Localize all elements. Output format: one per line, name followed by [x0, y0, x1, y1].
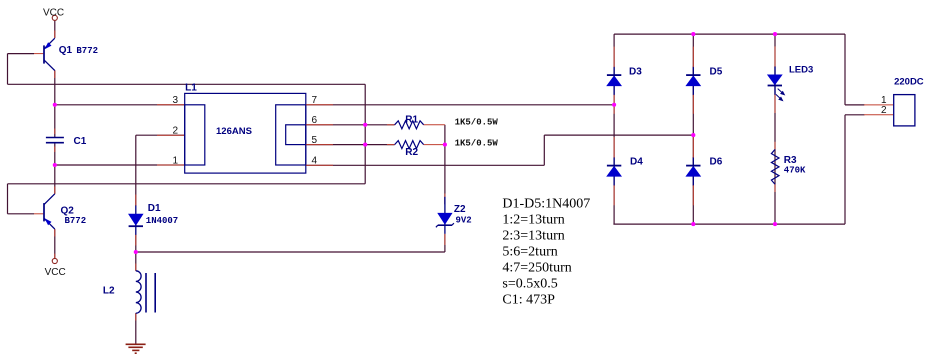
svg-text:B772: B772 — [76, 46, 98, 56]
svg-text:C1: 473P: C1: 473P — [502, 293, 555, 308]
svg-text:D5: D5 — [710, 66, 723, 77]
svg-text:R2: R2 — [405, 147, 418, 158]
svg-text:3: 3 — [172, 95, 178, 106]
svg-text:R3: R3 — [784, 155, 797, 166]
svg-text:9V2: 9V2 — [456, 216, 472, 226]
svg-text:4:7=250turn: 4:7=250turn — [502, 261, 571, 276]
svg-text:Z2: Z2 — [454, 204, 466, 215]
svg-text:5: 5 — [312, 135, 318, 146]
svg-text:D4: D4 — [630, 156, 643, 167]
svg-text:C1: C1 — [74, 136, 87, 147]
svg-text:470K: 470K — [784, 166, 806, 176]
svg-text:2: 2 — [172, 126, 178, 137]
svg-text:Q1: Q1 — [59, 45, 73, 56]
svg-text:LED3: LED3 — [789, 64, 813, 75]
svg-text:D1: D1 — [148, 203, 161, 214]
svg-text:1K5/0.5W: 1K5/0.5W — [455, 138, 499, 148]
svg-text:126ANS: 126ANS — [216, 126, 252, 137]
svg-text:D3: D3 — [629, 66, 642, 77]
svg-text:B772: B772 — [65, 216, 87, 226]
svg-text:L2: L2 — [103, 286, 115, 297]
svg-text:s=0.5x0.5: s=0.5x0.5 — [502, 277, 557, 292]
svg-text:1K5/0.5W: 1K5/0.5W — [455, 118, 499, 128]
svg-text:D1-D5:1N4007: D1-D5:1N4007 — [502, 197, 590, 212]
svg-text:VCC: VCC — [43, 7, 64, 18]
svg-text:2: 2 — [881, 105, 887, 116]
svg-text:6: 6 — [312, 115, 318, 126]
svg-text:7: 7 — [312, 95, 318, 106]
svg-text:D6: D6 — [710, 156, 723, 167]
svg-text:VCC: VCC — [45, 267, 66, 278]
svg-text:R1: R1 — [405, 114, 418, 125]
svg-text:1N4007: 1N4007 — [146, 216, 178, 226]
svg-text:L1: L1 — [185, 83, 197, 94]
svg-text:4: 4 — [312, 156, 318, 167]
svg-text:1:2=13turn: 1:2=13turn — [502, 213, 564, 228]
svg-text:2:3=13turn: 2:3=13turn — [502, 229, 564, 244]
svg-text:220DC: 220DC — [894, 76, 924, 87]
svg-text:5:6=2turn: 5:6=2turn — [502, 245, 557, 260]
svg-text:1: 1 — [172, 155, 178, 166]
